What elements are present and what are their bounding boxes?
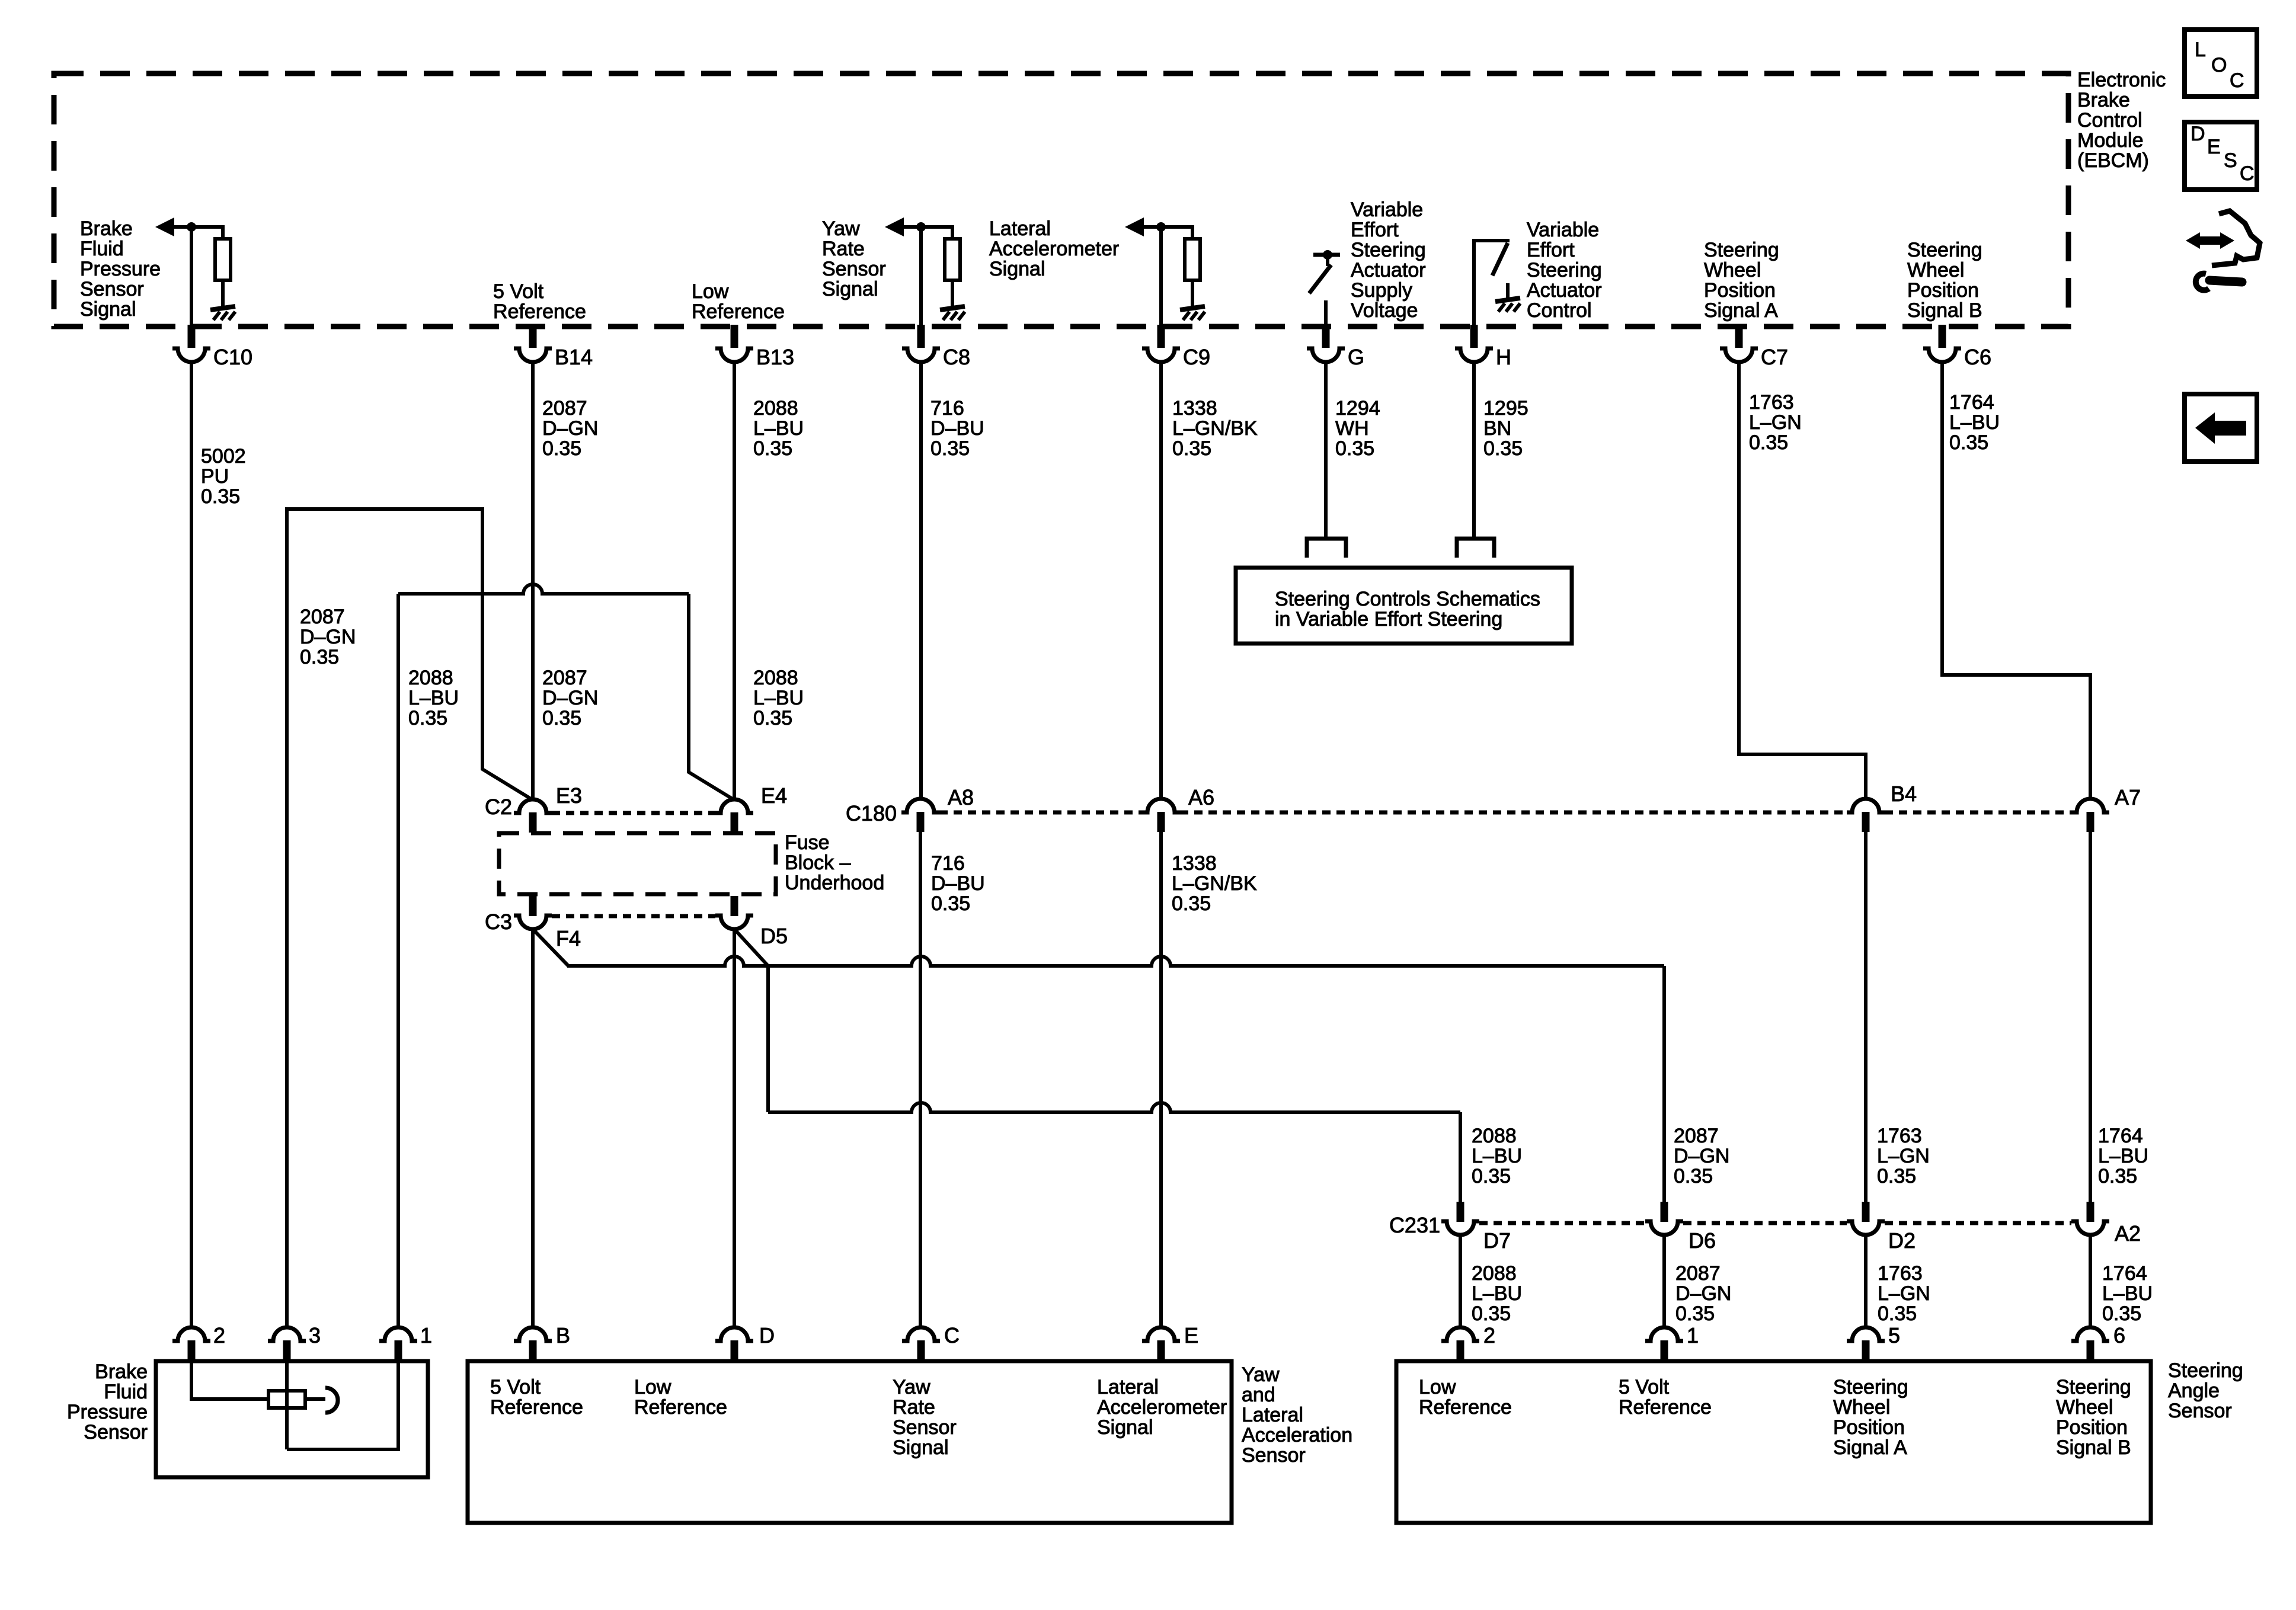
svg-text:Position: Position: [1907, 279, 1979, 302]
svg-text:Lateral: Lateral: [989, 217, 1051, 240]
wire arrow to resistor C10: [221, 225, 225, 239]
svg-text:Reference: Reference: [692, 300, 785, 323]
svg-text:0.35: 0.35: [542, 437, 581, 460]
svg-text:L–BU: L–BU: [1949, 411, 2000, 434]
svg-text:B4: B4: [1891, 782, 1917, 806]
wrench icon: [2209, 280, 2242, 282]
svg-text:Yaw: Yaw: [893, 1376, 930, 1398]
connector H: [1470, 325, 1478, 348]
junction dot at C8: [916, 222, 926, 232]
EBCM dashed box: [54, 73, 2068, 327]
sensor pin 6 at x=3527: [2071, 1327, 2109, 1341]
svg-text:Sensor: Sensor: [822, 258, 886, 280]
svg-text:Variable: Variable: [1527, 219, 1599, 241]
svg-text:0.35: 0.35: [1335, 437, 1374, 460]
connector C7: [1735, 325, 1743, 348]
svg-text:C6: C6: [1964, 345, 1991, 369]
wire A8 to pin C: [919, 831, 922, 1328]
wire G switch to connector: [1324, 300, 1328, 328]
svg-text:D–GN: D–GN: [1675, 1282, 1731, 1305]
svg-text:Effort: Effort: [1351, 219, 1399, 241]
svg-text:Wheel: Wheel: [1907, 259, 1964, 281]
svg-text:E4: E4: [761, 783, 787, 808]
svg-text:D–GN: D–GN: [300, 626, 356, 648]
dotted line E3 to E4: [552, 811, 715, 815]
svg-text:0.35: 0.35: [753, 707, 792, 729]
svg-text:Signal: Signal: [1097, 1416, 1153, 1439]
connector C10: [188, 325, 196, 348]
connector E4: [715, 799, 753, 813]
svg-text:5 Volt: 5 Volt: [493, 280, 544, 303]
svg-text:0.35: 0.35: [1675, 1302, 1715, 1325]
svg-text:0.35: 0.35: [1878, 1302, 1917, 1325]
svg-text:Sensor: Sensor: [1242, 1444, 1306, 1467]
connector C180 B4: [1847, 799, 1885, 812]
wire A6 to pin E: [1159, 831, 1163, 1328]
Steering Controls Schematics box: [1236, 568, 1572, 644]
ground: [940, 306, 965, 310]
svg-text:Pressure: Pressure: [80, 258, 161, 280]
svg-text:Sensor: Sensor: [2168, 1400, 2232, 1422]
svg-text:1295: 1295: [1483, 397, 1528, 420]
svg-text:Fuse: Fuse: [785, 831, 830, 854]
wire C10 to pin 2: [190, 361, 193, 1328]
sensor pin E at x=1959: [1142, 1327, 1180, 1341]
wire pin2 inside sensor: [191, 1361, 268, 1399]
svg-text:Brake: Brake: [95, 1361, 148, 1383]
svg-text:Signal B: Signal B: [1907, 299, 1982, 322]
svg-text:Fluid: Fluid: [104, 1381, 148, 1403]
svg-text:Accelerometer: Accelerometer: [1097, 1396, 1227, 1419]
svg-text:5 Volt: 5 Volt: [1619, 1376, 1670, 1398]
svg-text:Signal: Signal: [822, 278, 878, 300]
svg-text:G: G: [1348, 345, 1364, 369]
ground: [210, 306, 235, 310]
svg-text:Yaw: Yaw: [1242, 1363, 1280, 1386]
svg-text:Sensor: Sensor: [80, 278, 144, 300]
pressure sensor element: [268, 1391, 305, 1408]
svg-text:Signal: Signal: [893, 1436, 949, 1459]
switch symbol at G: [1313, 253, 1340, 257]
svg-text:Steering: Steering: [1833, 1376, 1908, 1398]
svg-text:0.35: 0.35: [542, 707, 581, 729]
sensor pin 2 at x=323: [172, 1327, 210, 1341]
svg-text:6: 6: [2113, 1323, 2125, 1347]
svg-text:F4: F4: [556, 926, 581, 950]
svg-text:Position: Position: [1833, 1416, 1905, 1439]
connector C8: [917, 325, 925, 348]
svg-text:E: E: [2207, 136, 2221, 158]
svg-text:BN: BN: [1483, 417, 1511, 440]
wire 2087 branch (E3 to pin 3): [287, 509, 533, 1328]
svg-text:1764: 1764: [2102, 1262, 2147, 1285]
svg-text:A7: A7: [2115, 785, 2141, 809]
Yaw and Lateral Acceleration Sensor box: [468, 1361, 1232, 1523]
back arrow box: [2185, 394, 2257, 462]
svg-text:0.35: 0.35: [201, 485, 240, 508]
svg-text:Supply: Supply: [1351, 279, 1412, 302]
wire D7 to pin 2: [1459, 1235, 1462, 1328]
switch-to-ground symbol at H: [1474, 241, 1510, 328]
svg-text:Low: Low: [1419, 1376, 1456, 1398]
svg-text:Signal A: Signal A: [1704, 299, 1778, 322]
svg-text:C: C: [2230, 69, 2244, 92]
svg-text:1764: 1764: [2098, 1125, 2143, 1147]
svg-text:D5: D5: [760, 924, 788, 948]
svg-text:Rate: Rate: [822, 238, 865, 260]
svg-text:in Variable Effort Steering: in Variable Effort Steering: [1275, 608, 1502, 630]
wire C9 to A6: [1159, 361, 1163, 800]
wire element to pin1 inside sensor: [287, 1361, 398, 1449]
svg-text:Brake: Brake: [2077, 89, 2130, 111]
svg-text:1763: 1763: [1749, 391, 1794, 414]
junction dot at C10: [187, 222, 196, 232]
svg-text:3: 3: [309, 1323, 321, 1347]
svg-text:5 Volt: 5 Volt: [490, 1376, 541, 1398]
svg-text:0.35: 0.35: [1674, 1165, 1713, 1188]
svg-text:Reference: Reference: [493, 300, 586, 323]
connector C2/E3: [514, 799, 552, 813]
svg-text:L–BU: L–BU: [753, 417, 804, 440]
svg-text:2087: 2087: [1674, 1125, 1719, 1147]
wire D2 to pin 5: [1864, 1235, 1868, 1328]
svg-text:1763: 1763: [1877, 1125, 1922, 1147]
bracket from G to steering schematic: [1307, 539, 1346, 558]
svg-text:Wheel: Wheel: [1833, 1396, 1890, 1419]
svg-text:D6: D6: [1689, 1228, 1716, 1253]
svg-text:D–GN: D–GN: [1674, 1145, 1729, 1167]
sensor pin 1 at x=2808: [1645, 1327, 1683, 1341]
svg-text:L–BU: L–BU: [408, 687, 459, 709]
dotted line D2 to A2: [1885, 1221, 2071, 1225]
sensor wiper crescent: [305, 1397, 325, 1401]
ground: [1180, 306, 1205, 310]
svg-text:Variable: Variable: [1351, 199, 1423, 221]
svg-text:Control: Control: [1527, 299, 1592, 322]
svg-text:C: C: [944, 1323, 960, 1347]
svg-text:Position: Position: [2056, 1416, 2128, 1439]
wire D6 to pin 1: [1662, 1235, 1666, 1328]
connector C9: [1157, 325, 1165, 348]
svg-text:Steering Controls Schematics: Steering Controls Schematics: [1275, 588, 1540, 610]
wire low ref D5 to D7 with humps: [734, 929, 768, 1112]
svg-text:L–BU: L–BU: [2102, 1282, 2153, 1305]
svg-text:0.35: 0.35: [1172, 892, 1211, 915]
svg-text:L–GN: L–GN: [1877, 1145, 1930, 1167]
svg-text:B14: B14: [555, 345, 593, 369]
svg-text:2087: 2087: [542, 667, 587, 689]
wire resistor to ground C10: [221, 280, 225, 307]
dotted line A6 to B4: [1180, 811, 1847, 815]
svg-text:Sensor: Sensor: [84, 1421, 148, 1443]
svg-text:D–GN: D–GN: [542, 687, 598, 709]
svg-text:0.35: 0.35: [1749, 431, 1788, 454]
wire B13 to E4: [733, 361, 736, 800]
svg-text:C7: C7: [1761, 345, 1788, 369]
connector C231 A2: [2087, 1202, 2094, 1222]
bracket from H to steering schematic: [1457, 539, 1494, 558]
svg-text:Wheel: Wheel: [2056, 1396, 2113, 1419]
wire A7 to A2: [2089, 831, 2092, 1203]
svg-text:2088: 2088: [408, 667, 453, 689]
svg-text:L–BU: L–BU: [1472, 1145, 1522, 1167]
sensor pin 3 at x=484: [268, 1327, 306, 1341]
svg-text:Actuator: Actuator: [1527, 279, 1602, 302]
svg-text:Low: Low: [692, 280, 729, 303]
connector B14: [529, 325, 537, 348]
wire D5 to pin D: [733, 929, 736, 1328]
svg-text:Effort: Effort: [1527, 239, 1575, 261]
svg-text:Signal B: Signal B: [2056, 1436, 2131, 1459]
svg-text:Lateral: Lateral: [1097, 1376, 1159, 1398]
svg-text:C3: C3: [485, 910, 512, 934]
svg-text:2087: 2087: [300, 606, 345, 628]
wire 2088 branch (E4 to pin 1) with hump over B14: [398, 584, 689, 594]
svg-text:Pressure: Pressure: [67, 1401, 148, 1423]
svg-text:2088: 2088: [1472, 1125, 1517, 1147]
wire pin3 through element: [285, 1361, 289, 1449]
svg-text:2088: 2088: [1472, 1262, 1517, 1285]
svg-text:E3: E3: [556, 783, 582, 808]
svg-text:L–GN: L–GN: [1749, 411, 1802, 434]
sensor pin D at x=1239: [715, 1327, 753, 1341]
svg-text:Steering: Steering: [1907, 239, 1982, 261]
svg-text:1764: 1764: [1949, 391, 1994, 414]
svg-text:1338: 1338: [1172, 852, 1217, 875]
junction dot at C9: [1156, 222, 1166, 232]
wire resistor to ground C9: [1191, 280, 1194, 307]
svg-text:D2: D2: [1888, 1228, 1916, 1253]
dotted line C3 to D5: [552, 914, 715, 918]
signal arrow at C8: [885, 217, 904, 236]
svg-text:Rate: Rate: [893, 1396, 935, 1419]
svg-text:C9: C9: [1183, 345, 1210, 369]
dotted line D7 to D6: [1479, 1221, 1645, 1225]
wire C9 arrow to connector: [1159, 227, 1163, 328]
connector C3/F4: [529, 896, 537, 916]
svg-text:0.35: 0.35: [930, 437, 970, 460]
resistor at C9: [1185, 239, 1200, 280]
Brake Fluid Pressure Sensor box: [156, 1361, 428, 1477]
svg-text:0.35: 0.35: [1949, 431, 1988, 454]
svg-text:0.35: 0.35: [2098, 1165, 2137, 1188]
svg-text:Low: Low: [634, 1376, 671, 1398]
svg-text:Steering: Steering: [1527, 259, 1602, 281]
svg-text:Underhood: Underhood: [785, 872, 884, 894]
svg-text:2087: 2087: [542, 397, 587, 420]
svg-text:D–BU: D–BU: [931, 872, 985, 895]
svg-text:D: D: [2191, 123, 2205, 145]
sensor pin 1 at x=672: [379, 1327, 417, 1341]
svg-text:1338: 1338: [1172, 397, 1217, 420]
connector G: [1322, 325, 1330, 348]
svg-text:Sensor: Sensor: [893, 1416, 957, 1439]
svg-text:1: 1: [1687, 1323, 1699, 1347]
svg-text:Yaw: Yaw: [822, 217, 860, 240]
svg-text:Control: Control: [2077, 109, 2142, 132]
wire B4 to D2: [1864, 831, 1868, 1203]
svg-text:Actuator: Actuator: [1351, 259, 1426, 281]
dotted line A8 to A6: [939, 811, 1142, 815]
signal arrow at C10: [155, 217, 174, 236]
svg-text:Block –: Block –: [785, 852, 851, 874]
svg-text:Accelerometer: Accelerometer: [989, 238, 1119, 260]
svg-text:L–GN: L–GN: [1878, 1282, 1930, 1305]
svg-text:Module: Module: [2077, 129, 2144, 152]
wire G to schematic bracket: [1324, 361, 1328, 539]
wire arrow to resistor C9: [1191, 225, 1194, 239]
svg-text:1: 1: [420, 1323, 432, 1347]
svg-text:Fluid: Fluid: [80, 238, 124, 260]
svg-text:716: 716: [931, 852, 965, 875]
svg-text:2: 2: [1483, 1323, 1495, 1347]
wire A2 to pin 6: [2089, 1235, 2092, 1328]
fuse block dashed box: [499, 833, 776, 894]
svg-text:C8: C8: [943, 345, 970, 369]
svg-text:0.35: 0.35: [408, 707, 447, 729]
svg-text:E: E: [1184, 1323, 1198, 1347]
wire C7 jog to B4: [1739, 361, 1866, 800]
svg-text:WH: WH: [1335, 417, 1369, 440]
sensor pin B at x=899: [514, 1327, 552, 1341]
svg-text:2087: 2087: [1675, 1262, 1721, 1285]
svg-text:0.35: 0.35: [1172, 437, 1211, 460]
svg-text:Steering: Steering: [1704, 239, 1779, 261]
sensor pin C at x=1554: [902, 1327, 940, 1341]
svg-text:L–GN/BK: L–GN/BK: [1172, 417, 1258, 440]
connector C180 A7: [2071, 799, 2109, 812]
svg-text:Reference: Reference: [1419, 1396, 1512, 1419]
svg-text:and: and: [1242, 1384, 1275, 1406]
svg-text:Steering: Steering: [2056, 1376, 2131, 1398]
svg-text:2: 2: [213, 1323, 225, 1347]
connector C180 A6: [1142, 799, 1180, 812]
wire C3 to pin B: [531, 929, 535, 1328]
svg-text:Electronic: Electronic: [2077, 69, 2166, 91]
svg-text:Reference: Reference: [1619, 1396, 1712, 1419]
wire H to schematic bracket: [1472, 361, 1476, 539]
svg-text:C180: C180: [846, 801, 897, 825]
wire B14 to E3: [531, 361, 535, 800]
svg-text:Lateral: Lateral: [1242, 1404, 1303, 1426]
wire C8 to A8: [919, 361, 923, 800]
connector C180 A8: [901, 799, 939, 812]
svg-text:Signal: Signal: [989, 258, 1045, 280]
svg-text:O: O: [2211, 54, 2227, 76]
svg-text:A2: A2: [2115, 1221, 2141, 1246]
svg-text:Wheel: Wheel: [1704, 259, 1761, 281]
wire C6 jog to A7: [1942, 361, 2090, 800]
connector C231 D6: [1661, 1202, 1668, 1222]
svg-text:H: H: [1496, 345, 1511, 369]
svg-text:C2: C2: [485, 795, 512, 819]
Steering Angle Sensor box: [1396, 1361, 2151, 1523]
svg-text:B: B: [556, 1323, 570, 1347]
svg-text:1763: 1763: [1878, 1262, 1923, 1285]
svg-text:2088: 2088: [753, 667, 798, 689]
resistor at C8: [945, 239, 960, 280]
svg-text:5: 5: [1888, 1323, 1900, 1347]
svg-text:C10: C10: [213, 345, 252, 369]
svg-text:Steering: Steering: [2168, 1359, 2243, 1382]
wire arrow to resistor C8: [951, 225, 954, 239]
signal arrow at C9: [1125, 217, 1144, 236]
svg-text:0.35: 0.35: [1877, 1165, 1916, 1188]
svg-text:0.35: 0.35: [753, 437, 792, 460]
svg-text:L–BU: L–BU: [753, 687, 804, 709]
svg-text:Reference: Reference: [634, 1396, 727, 1419]
svg-text:L–BU: L–BU: [2098, 1145, 2148, 1167]
connector C231 D2: [1862, 1202, 1870, 1222]
svg-text:D7: D7: [1483, 1228, 1511, 1253]
svg-text:D–BU: D–BU: [930, 417, 984, 440]
sensor pin 5 at x=3148: [1847, 1327, 1885, 1341]
svg-text:L–GN/BK: L–GN/BK: [1172, 872, 1257, 895]
svg-text:Angle: Angle: [2168, 1379, 2220, 1402]
svg-text:A6: A6: [1188, 785, 1214, 809]
svg-text:5002: 5002: [201, 445, 246, 468]
svg-text:Signal: Signal: [80, 298, 136, 321]
DESC legend box: [2185, 122, 2257, 190]
svg-text:0.35: 0.35: [931, 892, 970, 915]
svg-text:Reference: Reference: [490, 1396, 583, 1419]
wire resistor to ground C8: [951, 280, 954, 307]
svg-text:1294: 1294: [1335, 397, 1380, 420]
dotted line D6 to D2: [1683, 1221, 1847, 1225]
svg-text:D–GN: D–GN: [542, 417, 598, 440]
svg-text:0.35: 0.35: [1472, 1165, 1511, 1188]
svg-text:S: S: [2224, 149, 2237, 172]
ground: [1495, 298, 1520, 302]
svg-text:0.35: 0.35: [300, 646, 339, 668]
connector D5: [731, 896, 738, 916]
wire 5V ref F4 to D6 with humps: [533, 929, 568, 966]
svg-text:PU: PU: [201, 465, 229, 488]
svg-text:0.35: 0.35: [2102, 1302, 2141, 1325]
svg-text:Position: Position: [1704, 279, 1776, 302]
svg-text:Signal A: Signal A: [1833, 1436, 1907, 1459]
connector B13: [731, 325, 738, 348]
svg-text:0.35: 0.35: [1483, 437, 1523, 460]
svg-text:C: C: [2240, 162, 2255, 185]
sensor pin 2 at x=2464: [1441, 1327, 1479, 1341]
svg-text:B13: B13: [756, 345, 794, 369]
dotted line B4 to A7: [1885, 811, 2071, 815]
svg-text:Acceleration: Acceleration: [1242, 1424, 1352, 1446]
svg-text:716: 716: [930, 397, 964, 420]
wire C10 arrow to connector: [190, 227, 193, 328]
connector C6: [1939, 325, 1946, 348]
svg-text:(EBCM): (EBCM): [2077, 149, 2149, 172]
resistor at C10: [215, 239, 231, 280]
svg-text:L–BU: L–BU: [1472, 1282, 1522, 1305]
svg-text:L: L: [2195, 39, 2206, 61]
part locator icon: [2186, 232, 2200, 249]
svg-text:Brake: Brake: [80, 217, 133, 240]
connector C231 D7: [1457, 1202, 1464, 1222]
svg-text:2088: 2088: [753, 397, 798, 420]
svg-text:C231: C231: [1389, 1213, 1440, 1237]
wire C8 arrow to connector: [919, 227, 923, 328]
svg-text:Voltage: Voltage: [1351, 299, 1418, 322]
svg-text:D: D: [759, 1323, 775, 1347]
svg-text:A8: A8: [948, 785, 974, 809]
LOC legend box: [2185, 30, 2257, 97]
svg-text:0.35: 0.35: [1472, 1302, 1511, 1325]
svg-text:Steering: Steering: [1351, 239, 1426, 261]
